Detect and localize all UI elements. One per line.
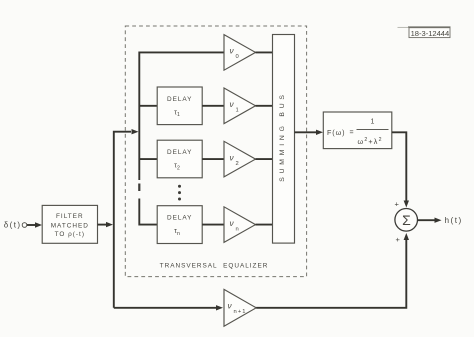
wire summer output <box>418 218 442 223</box>
svg-text:1: 1 <box>371 119 375 126</box>
svg-text:δ(t): δ(t) <box>4 221 22 230</box>
svg-text:1: 1 <box>236 108 239 114</box>
svg-text:FILTER: FILTER <box>56 213 84 220</box>
wire delayn to ampn <box>202 224 224 226</box>
svg-text:DELAY: DELAY <box>167 215 192 222</box>
wire bypass bottom <box>114 305 223 310</box>
wire bypass to summer <box>256 233 409 308</box>
svg-text:=: = <box>350 129 354 136</box>
wire filter to node <box>98 222 114 227</box>
matched filter box <box>42 205 97 243</box>
wire amp1 to bus <box>256 105 273 107</box>
amplifier nu1 <box>224 88 256 124</box>
wire ampn to bus <box>256 224 273 226</box>
svg-text:n: n <box>236 226 239 232</box>
wire delay2 to amp2 <box>202 158 224 160</box>
svg-text:MATCHED: MATCHED <box>51 223 89 230</box>
svg-text:DELAY: DELAY <box>167 96 192 103</box>
figure id leader line <box>398 26 410 28</box>
svg-text:F(ω): F(ω) <box>327 128 345 137</box>
svg-text:2: 2 <box>236 161 239 167</box>
summer circle <box>395 209 418 232</box>
svg-text:n+1: n+1 <box>234 309 247 315</box>
svg-text:18-3-12444: 18-3-12444 <box>411 29 450 38</box>
summing bus box <box>273 35 295 244</box>
svg-text:+: + <box>396 235 401 244</box>
delay box tau1 <box>157 87 202 125</box>
delay box tau2 <box>157 140 202 178</box>
wire input to filter <box>27 222 42 227</box>
wire bus to F box <box>295 130 324 135</box>
dashed box transversal equalizer <box>125 26 306 277</box>
svg-text:0: 0 <box>236 54 239 60</box>
wire tap row1 <box>139 105 157 107</box>
delay box tau n <box>157 206 202 244</box>
wire amp2 to bus <box>256 158 273 160</box>
ellipsis dots between delays <box>178 185 181 201</box>
svg-text:+: + <box>395 199 400 208</box>
svg-text:TRANSVERSAL EQUALIZER: TRANSVERSAL EQUALIZER <box>160 263 269 270</box>
wire vertical trunk <box>114 129 139 308</box>
wire tap row2 <box>139 158 157 160</box>
svg-text:TO ρ(-t): TO ρ(-t) <box>55 231 85 238</box>
svg-text:Σ: Σ <box>402 212 411 228</box>
amplifier nun <box>224 207 256 243</box>
wire delay1 to amp1 <box>202 105 224 107</box>
svg-text:SUMMING BUS: SUMMING BUS <box>279 91 286 182</box>
wire tap feed line <box>139 52 224 224</box>
node delta(t) input label <box>4 221 27 230</box>
svg-text:DELAY: DELAY <box>167 149 192 156</box>
wire F box to summer <box>392 132 409 207</box>
amplifier nu n+1 <box>224 289 256 326</box>
F(omega) box <box>323 112 392 149</box>
svg-text:h(t): h(t) <box>445 216 463 225</box>
wire amp0 to bus <box>256 51 273 53</box>
amplifier nu2 <box>224 141 256 177</box>
figure id box <box>408 27 451 38</box>
amplifier nu0 <box>224 35 256 71</box>
